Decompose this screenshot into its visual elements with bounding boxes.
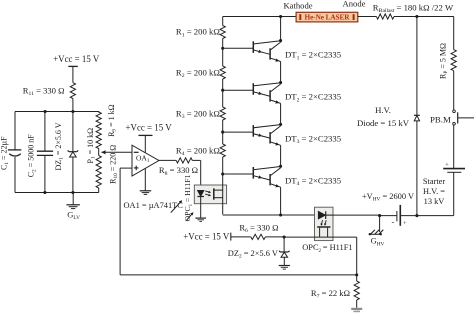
svg-text:Anode: Anode <box>343 0 366 9</box>
OPC1 photo-FET <box>214 188 223 199</box>
svg-text:R6 = 330 Ω: R6 = 330 Ω <box>239 222 278 234</box>
label R7 = 22 kOhm <box>311 288 350 300</box>
node HV column top <box>415 15 418 18</box>
zener diode DZ2 <box>279 251 290 266</box>
resistor R_P = 5 MOhm <box>451 50 456 71</box>
label P1 = 10 kOhm <box>86 128 97 164</box>
label Anode <box>343 0 366 9</box>
svg-text:+Vcc = 15 V: +Vcc = 15 V <box>126 122 173 132</box>
resistor R6 <box>251 234 266 239</box>
node DT2 collector <box>279 81 282 84</box>
wire R1 to node <box>222 39 224 49</box>
label PB.M <box>430 114 451 124</box>
svg-text:C1 = 22µF: C1 = 22µF <box>0 136 10 170</box>
label R10 = 220 Ohm <box>108 145 119 184</box>
wire starter battery down <box>417 172 454 215</box>
node +Vcc label (left) <box>53 54 100 64</box>
node R2 bottom <box>221 89 224 92</box>
node C2 bottom junction <box>43 191 46 194</box>
svg-text:DT2 = 2×C2335: DT2 = 2×C2335 <box>285 92 341 104</box>
laser tube He-Ne LASER <box>296 12 358 22</box>
svg-text:R1 = 200 kΩ: R1 = 200 kΩ <box>176 27 220 39</box>
label OPC2 = H11F1 <box>302 243 352 254</box>
wire node to R3 <box>222 90 224 107</box>
svg-text:-: - <box>391 218 394 227</box>
label +Vcc op-amp supply <box>126 122 173 132</box>
push button PB.M <box>453 110 474 125</box>
wire rail corner into R9 <box>98 111 100 113</box>
node DT4 collector <box>279 165 282 168</box>
node DT3 collector <box>279 123 282 126</box>
svg-text:R9 = 1 kΩ: R9 = 1 kΩ <box>107 104 118 137</box>
svg-text:He-Ne LASER: He-Ne LASER <box>305 13 351 22</box>
wire DT1 emitter to DT2 collector <box>280 62 282 83</box>
resistor R3 <box>220 107 225 120</box>
resistor R10 <box>96 156 101 189</box>
label R_P = 5 MOhm <box>438 43 449 79</box>
svg-text:13 kV: 13 kV <box>424 197 445 206</box>
wire R_P to push button <box>453 71 455 110</box>
label R9 = 1 kOhm <box>107 104 118 137</box>
wire R3 to node <box>222 120 224 132</box>
label H.V. Diode = 15 kV <box>357 105 410 128</box>
svg-text:DZ1 = 2×5.6 V: DZ1 = 2×5.6 V <box>54 122 65 170</box>
label R8 = 330 Ohm <box>159 165 198 177</box>
svg-text:R11 = 330 Ω: R11 = 330 Ω <box>23 85 65 97</box>
wire R4 to node <box>222 157 224 174</box>
transistor DT3 darlington pair <box>223 125 281 146</box>
svg-text:H.V.: H.V. <box>375 105 391 115</box>
transistor DT4 darlington pair <box>223 167 281 188</box>
label R2 = 200 kOhm <box>176 67 220 79</box>
svg-text:P1 = 10 kΩ: P1 = 10 kΩ <box>86 128 97 164</box>
svg-text:C2 = 5000 nF: C2 = 5000 nF <box>27 134 38 178</box>
wire chain bottom corner <box>223 174 315 215</box>
wire HV diode column upper <box>416 17 418 116</box>
optocoupler OPC1 box <box>194 185 226 204</box>
wire push button to starter battery <box>453 125 455 168</box>
label R1 = 200 kOhm <box>176 27 220 39</box>
node DT1 collector to rail <box>279 15 282 18</box>
wire R2 to node <box>222 79 224 90</box>
wire op-amp + input <box>120 168 132 275</box>
label +Vcc 15V (R6 supply) <box>183 232 230 242</box>
svg-text:GHV: GHV <box>371 236 385 248</box>
OPC2 photo-FET <box>317 227 330 237</box>
label R3 = 200 kOhm <box>176 108 220 120</box>
wire FET output line <box>284 237 357 275</box>
label OPC1 = H11F1 with trim arrow <box>183 174 194 221</box>
label OA1 = uA741TC with trim arrow <box>124 200 184 212</box>
wire C1 branch top <box>14 112 16 150</box>
wire battery plus side <box>400 215 417 217</box>
node R1 bottom <box>221 47 224 50</box>
node DT1 collector <box>279 39 282 42</box>
svg-text:+: + <box>403 220 407 227</box>
svg-text:+: + <box>445 162 449 169</box>
wire R9 to wiper region <box>98 149 100 156</box>
wire chain top lead <box>222 17 224 26</box>
svg-text:+Vcc = 15 V: +Vcc = 15 V <box>183 232 230 242</box>
resistor R11 <box>70 83 75 99</box>
node R6 DZ2 junction <box>283 235 286 238</box>
label C2 = 5000 nF <box>27 134 38 178</box>
svg-text:DT1 = 2×C2335: DT1 = 2×C2335 <box>285 50 341 62</box>
wire op-amp V- to ground <box>144 168 146 190</box>
svg-text:R2 = 200 kΩ: R2 = 200 kΩ <box>176 67 220 79</box>
node HV battery junction <box>415 214 418 217</box>
wire R8 to OPC1 LED <box>192 160 200 190</box>
label R_Ballast = 180 kOhm / 22 W <box>373 3 454 15</box>
wire C2 branch top <box>44 112 46 152</box>
wire bottom left rail <box>15 192 99 194</box>
svg-text:Kathode: Kathode <box>283 1 312 11</box>
wire bottom feedback rail <box>120 274 357 276</box>
label DT2 = 2xC2335 <box>285 92 341 104</box>
wire DT3 emitter to DT4 collector <box>280 145 282 166</box>
node DT4 emitter junction <box>279 213 282 216</box>
ground R7 <box>351 308 362 312</box>
svg-text:RBallast = 180 kΩ /22 W: RBallast = 180 kΩ /22 W <box>373 3 454 15</box>
svg-text:+VHV = 2600 V: +VHV = 2600 V <box>362 192 414 203</box>
node C2 top junction <box>44 110 47 113</box>
wire top rail kathode side <box>223 16 296 18</box>
label G_LV <box>67 210 80 222</box>
wire collector bus top <box>280 17 282 41</box>
wire DZ2 branch <box>283 237 285 252</box>
resistor R2 <box>220 66 225 79</box>
capacitor C2 <box>37 151 53 192</box>
svg-text:Diode = 15 kV: Diode = 15 kV <box>357 118 410 128</box>
resistor R8 <box>176 158 192 163</box>
svg-text:R4 = 200 kΩ: R4 = 200 kΩ <box>176 145 220 157</box>
node R3 bottom <box>221 131 224 134</box>
wire HV diode column lower <box>416 121 418 216</box>
label R11 = 330 Ohm <box>23 85 65 97</box>
label DT1 = 2xC2335 <box>285 50 341 62</box>
svg-text:R8 = 330 Ω: R8 = 330 Ω <box>159 165 198 177</box>
label Starter H.V. = 13 kV <box>423 177 446 206</box>
capacitor C1 <box>8 150 21 193</box>
wire anode to ballast <box>358 16 377 18</box>
svg-text:R10 = 220 Ω: R10 = 220 Ω <box>108 145 119 184</box>
label Kathode <box>283 1 312 11</box>
label DZ1 = 2x5.6 V <box>54 122 65 170</box>
wire DT2 emitter to DT3 collector <box>280 103 282 124</box>
svg-text:DT3 = 2×C2335: DT3 = 2×C2335 <box>285 134 341 146</box>
zener diode DZ1 <box>67 150 78 192</box>
svg-text:R7 = 22 kΩ: R7 = 22 kΩ <box>311 288 350 300</box>
svg-text:Starter: Starter <box>423 177 446 186</box>
label DZ2 = 2x5.6 V <box>228 249 278 260</box>
svg-text:R3 = 200 kΩ: R3 = 200 kΩ <box>176 108 220 120</box>
wire +Vcc supply rail to R11 <box>68 66 78 82</box>
wire R10 bottom <box>98 188 100 193</box>
transistor DT1 darlington pair <box>223 41 281 62</box>
resistor R4 <box>220 144 225 157</box>
optocoupler OPC2 box <box>315 207 334 240</box>
svg-text:OPC2 = H11F1: OPC2 = H11F1 <box>302 243 352 254</box>
wire left rail horizontal <box>15 111 99 113</box>
wire Vcc tick R6 <box>231 233 251 241</box>
label +V_HV = 2600 V <box>362 192 414 203</box>
label R6 = 330 Ohm <box>239 222 278 234</box>
wire R11 to rail <box>72 99 74 112</box>
node R7 top junction <box>355 273 358 276</box>
node G_LV junction <box>71 191 74 194</box>
wire op-amp V+ supply <box>139 135 153 152</box>
wire OPC2 LED to battery <box>333 214 380 216</box>
wire R6 to node <box>265 236 284 238</box>
resistor R7 <box>354 275 359 308</box>
potentiometer P1 wiper arrow <box>101 150 132 154</box>
wire battery minus to G_HV node <box>380 215 397 217</box>
svg-text:GLV: GLV <box>67 210 80 222</box>
label C1 = 22uF <box>0 136 10 170</box>
op-amp U1 OA1 <box>132 145 159 176</box>
OPC2 light arrows <box>321 220 327 226</box>
svg-text:RP = 5 MΩ: RP = 5 MΩ <box>438 43 449 79</box>
ground op-amp <box>140 191 152 195</box>
svg-text:DZ2 = 2×5.6 V: DZ2 = 2×5.6 V <box>228 249 278 260</box>
node DZ1 top junction <box>71 110 74 113</box>
wire DZ1 branch top <box>72 112 74 152</box>
resistor R9 <box>96 112 101 149</box>
OPC1 LED <box>197 191 204 218</box>
battery starter 13 kV <box>443 162 465 173</box>
node G_HV junction <box>378 214 381 217</box>
svg-text:H.V. =: H.V. = <box>423 187 445 196</box>
svg-text:DT4 = 2×C2335: DT4 = 2×C2335 <box>285 175 341 187</box>
ground DZ2 <box>279 266 290 270</box>
svg-text:+Vcc = 15 V: +Vcc = 15 V <box>53 54 100 64</box>
battery +V_HV = 2600 V <box>391 205 407 227</box>
OPC2 LED <box>318 211 333 219</box>
resistor R_Ballast <box>376 14 394 19</box>
svg-text:PB.M: PB.M <box>430 114 451 124</box>
label R4 = 200 kOhm <box>176 145 220 157</box>
transistor DT2 darlington pair <box>223 83 281 104</box>
wire ballast to corner <box>394 16 454 18</box>
wire starter column top <box>453 17 455 50</box>
wire op-amp output <box>159 159 176 161</box>
H.V. diode <box>414 115 420 121</box>
ground OPC1 LED <box>195 218 206 221</box>
label DT3 = 2xC2335 <box>285 134 341 146</box>
ground G_HV earth <box>369 216 384 236</box>
OPC1 light arrows <box>205 191 211 197</box>
label G_HV <box>371 236 385 248</box>
resistor R1 <box>220 26 225 39</box>
ground G_LV <box>66 193 80 209</box>
label DT4 = 2xC2335 <box>285 175 341 187</box>
wire DT4 emitter down <box>280 187 282 215</box>
node R4 bottom <box>221 172 224 175</box>
wire node to R2 <box>222 48 224 66</box>
wire node to R4 <box>222 132 224 144</box>
